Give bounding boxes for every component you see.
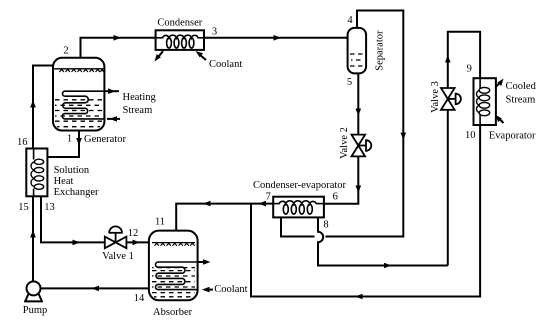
vessel Generator bbox=[53, 58, 104, 131]
generator liquid dashes bbox=[55, 100, 102, 127]
absorber coolant in arrow bbox=[202, 287, 213, 293]
pump P1 bbox=[24, 281, 43, 301]
wire stream 3 bbox=[204, 35, 348, 41]
svg-text:5: 5 bbox=[347, 77, 352, 88]
wire stream 13 (exchanger to valve 1) bbox=[41, 196, 105, 245]
wire stream 10 (evaporator to absorber line) bbox=[251, 125, 480, 299]
svg-text:Coolant: Coolant bbox=[214, 284, 247, 295]
evaporator cooled stream in arrow bbox=[496, 115, 504, 123]
wire stream 2 bbox=[81, 35, 156, 58]
wire stream 7 (to absorber) bbox=[176, 201, 273, 231]
svg-text:11: 11 bbox=[155, 217, 165, 228]
svg-text:Separator: Separator bbox=[374, 30, 385, 71]
evaporator coil bbox=[477, 78, 490, 125]
heating stream out arrow bbox=[104, 88, 119, 94]
valve V2 bbox=[352, 135, 372, 157]
svg-text:13: 13 bbox=[44, 202, 55, 213]
evaporator cooled stream out arrow bbox=[496, 79, 504, 88]
svg-text:Solution: Solution bbox=[54, 165, 90, 176]
wire stream 15 (pump to exchanger) bbox=[30, 196, 36, 281]
svg-text:4: 4 bbox=[347, 15, 353, 26]
svg-text:Evaporator: Evaporator bbox=[489, 130, 536, 141]
wire stream 6 (valve 2 to condenser-evaporator) bbox=[324, 156, 361, 203]
wire stream 8 (with hop) to valve 3 bbox=[318, 217, 448, 268]
heat-exchanger Solution Heat Exchanger box bbox=[26, 149, 47, 197]
wire valve 3 riser bbox=[445, 32, 480, 266]
heating stream in arrow bbox=[107, 116, 120, 122]
svg-text:Cooled: Cooled bbox=[506, 81, 537, 92]
wire stream 5 (separator to valve 2) bbox=[356, 73, 362, 134]
condenser coolant in arrow bbox=[196, 51, 207, 60]
svg-text:Stream: Stream bbox=[123, 105, 153, 116]
svg-text:3: 3 bbox=[212, 27, 217, 38]
svg-text:Condenser-evaporator: Condenser-evaporator bbox=[253, 180, 347, 191]
heat-exchanger Evaporator box bbox=[474, 78, 496, 125]
absorber coolant coil serpentine bbox=[155, 262, 197, 290]
svg-text:2: 2 bbox=[63, 46, 68, 57]
heat-exchanger Condenser-evaporator box bbox=[273, 197, 324, 218]
generator tray line bbox=[54, 69, 104, 72]
valve V3 bbox=[441, 88, 461, 110]
wire stream 4 bbox=[281, 11, 406, 237]
vessel Absorber bbox=[149, 231, 198, 301]
valve V1 bbox=[105, 226, 127, 248]
absorber coolant out arrow bbox=[198, 259, 211, 265]
wire stream 14 (absorber to pump) bbox=[40, 286, 148, 292]
svg-text:6: 6 bbox=[333, 191, 338, 202]
svg-text:10: 10 bbox=[465, 130, 476, 141]
svg-text:Exchanger: Exchanger bbox=[54, 187, 99, 198]
svg-text:Valve 1: Valve 1 bbox=[102, 251, 134, 262]
svg-text:16: 16 bbox=[17, 137, 28, 148]
svg-text:Heat: Heat bbox=[54, 176, 74, 187]
absorber liquid dashes bbox=[152, 268, 195, 297]
svg-text:8: 8 bbox=[323, 220, 328, 231]
absorber tray line bbox=[152, 243, 195, 246]
svg-text:Heating: Heating bbox=[123, 92, 157, 103]
svg-text:Stream: Stream bbox=[506, 95, 536, 106]
svg-text:14: 14 bbox=[134, 293, 145, 304]
svg-text:9: 9 bbox=[467, 63, 472, 74]
svg-text:15: 15 bbox=[18, 202, 29, 213]
svg-text:Pump: Pump bbox=[23, 305, 48, 316]
svg-text:1: 1 bbox=[67, 134, 72, 145]
separator liquid dashes bbox=[350, 54, 364, 66]
exchanger coil bbox=[31, 149, 44, 197]
svg-text:Absorber: Absorber bbox=[153, 307, 193, 318]
wire stream 1 (generator to exchanger) bbox=[47, 131, 81, 158]
svg-text:Generator: Generator bbox=[84, 134, 126, 145]
svg-text:Condenser: Condenser bbox=[157, 17, 202, 28]
svg-text:Valve 3: Valve 3 bbox=[430, 81, 441, 113]
condenser coil bbox=[156, 35, 204, 48]
vessel Separator bbox=[348, 28, 367, 74]
svg-text:Coolant: Coolant bbox=[209, 59, 242, 70]
svg-text:12: 12 bbox=[128, 228, 139, 239]
condenser coolant out arrow bbox=[155, 51, 164, 62]
condenser-evaporator coil bbox=[273, 201, 324, 214]
heat-exchanger Condenser box bbox=[156, 30, 204, 50]
svg-text:Valve 2: Valve 2 bbox=[339, 127, 350, 159]
generator heating coil serpentine bbox=[62, 91, 104, 119]
wire stream 16 (exchanger to generator) bbox=[30, 66, 53, 149]
svg-text:7: 7 bbox=[266, 191, 271, 202]
wire stream 12 (valve 1 to absorber) bbox=[126, 240, 148, 246]
